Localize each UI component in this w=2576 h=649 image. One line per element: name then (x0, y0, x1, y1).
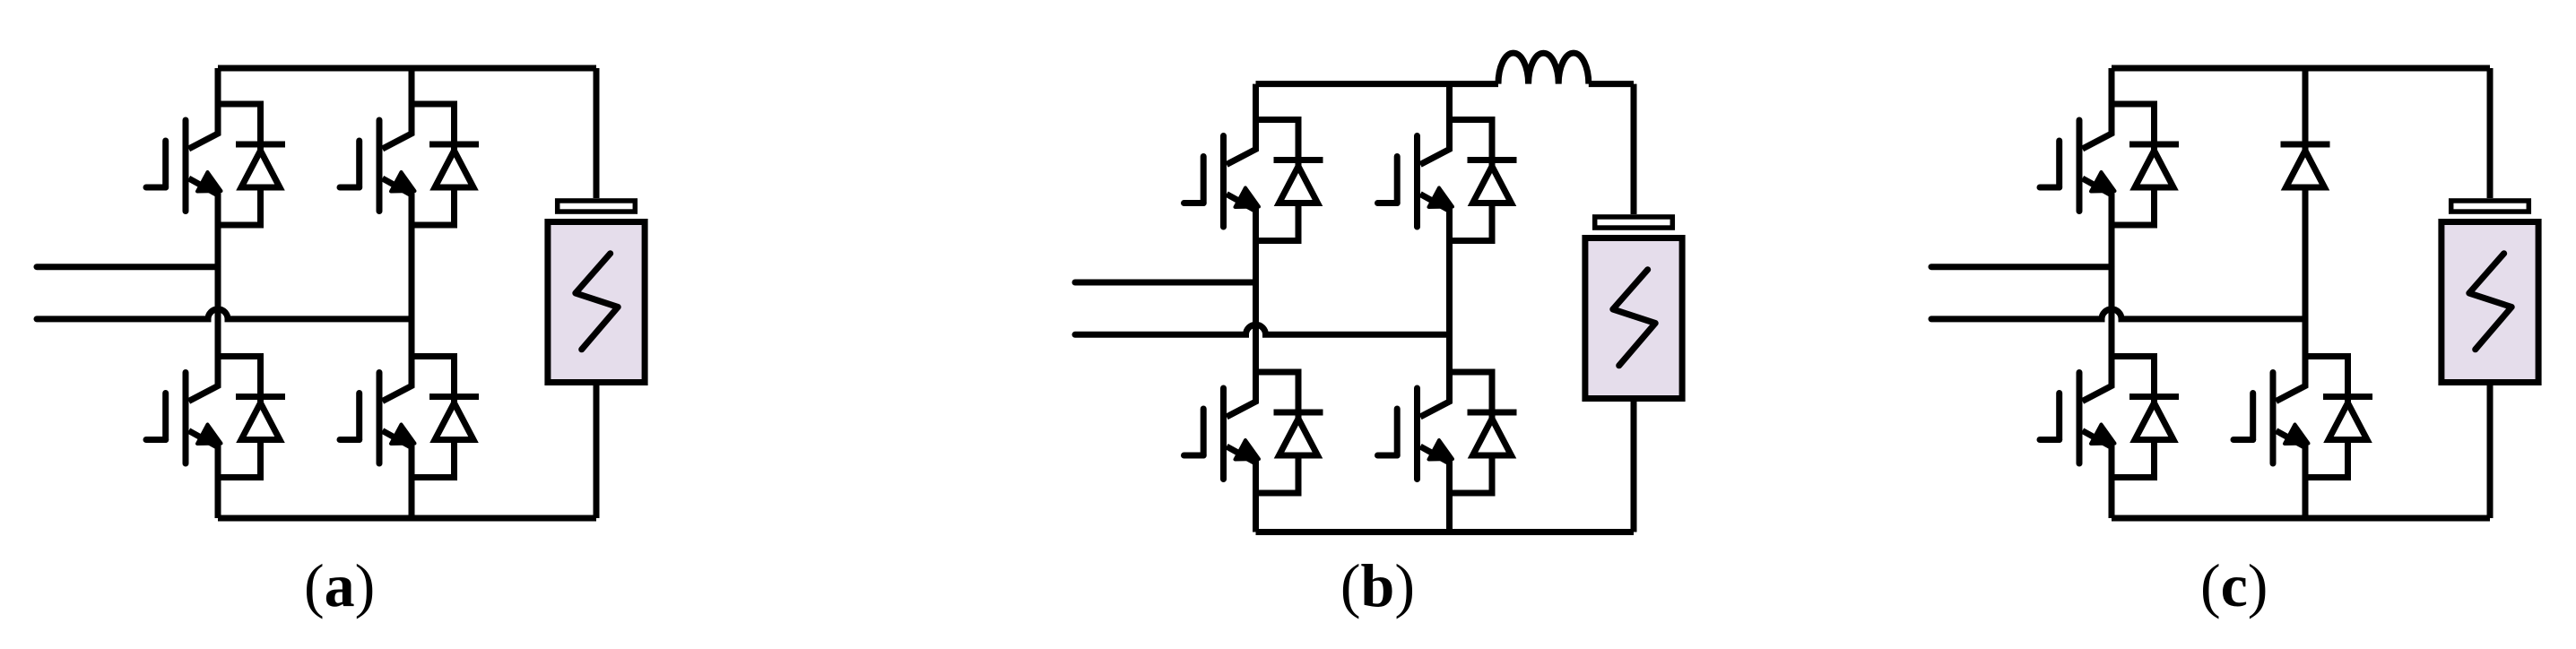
transistor S4: IGBT with diode, bottom-right (a) (340, 356, 479, 479)
wire: battery positive lead (c) (2487, 68, 2494, 198)
wire: left leg middle segment (c) (2109, 225, 2115, 357)
wire: right leg upper segment (b) (1446, 84, 1453, 120)
wire: top DC rail (a) (218, 65, 596, 72)
wire: right leg lower segment (b) (1446, 493, 1453, 532)
wire: left leg middle segment (b) (1253, 241, 1259, 373)
wire: battery positive lead (b) (1631, 84, 1637, 214)
diode D2: bare diode, top-right leg (c) (2281, 144, 2330, 187)
wire: AC input line 2 with crossover hop (a) (37, 309, 412, 319)
wire: bottom DC rail (a) (218, 515, 596, 522)
wire: right leg middle segment (b) (1446, 241, 1453, 373)
wire: right leg lower segment (a) (409, 478, 415, 519)
wire: left leg upper segment (a) (215, 68, 221, 104)
transistor S1: IGBT with diode, top-left (a) (146, 103, 285, 226)
wire: top DC rail right part (b) (1589, 81, 1634, 87)
wire: bottom DC rail (c) (2112, 515, 2490, 522)
transistor S3: IGBT with diode, bottom-left (b) (1184, 371, 1323, 494)
wire: right leg middle segment (a) (409, 225, 415, 357)
wire: left leg upper segment (b) (1253, 84, 1259, 120)
battery (a) (548, 201, 645, 383)
transistor S1: IGBT with diode, top-left (b) (1184, 119, 1323, 242)
inductor L (b) (1498, 53, 1589, 84)
wire: battery positive lead (a) (594, 68, 600, 198)
wire: battery negative lead (c) (2487, 385, 2494, 518)
svg-text:(b): (b) (1340, 551, 1415, 619)
transistor S4: IGBT with diode, bottom-right (b) (1378, 371, 1517, 494)
svg-text:(c): (c) (2200, 551, 2268, 619)
wire: right leg upper segment (a) (409, 68, 415, 104)
wire: right leg upper segment through diode (c) (2303, 68, 2309, 357)
battery (c) (2442, 201, 2538, 383)
wire: battery negative lead (a) (594, 385, 600, 518)
wire: AC input line 2 with crossover hop (b) (1075, 324, 1450, 334)
wire: AC input line 1 (b) (1075, 280, 1256, 286)
wire: left leg upper segment (c) (2109, 68, 2115, 104)
battery (b) (1585, 217, 1682, 399)
svg-text:(a): (a) (304, 551, 375, 619)
transistor S3: IGBT with diode, bottom-left (c) (2040, 356, 2179, 479)
wire: left leg lower segment (c) (2109, 478, 2115, 519)
wire: AC input line 2 with crossover hop (c) (1931, 309, 2305, 319)
transistor S1: IGBT with diode, top-left (c) (2040, 103, 2179, 226)
wire: top DC rail left part (b) (1256, 81, 1499, 87)
wire: bottom DC rail (b) (1256, 529, 1635, 535)
transistor S2: IGBT with diode, top-right (b) (1378, 119, 1517, 242)
transistor S4: IGBT with diode, bottom-right (c) (2233, 356, 2372, 479)
transistor S2: IGBT with diode, top-right (a) (340, 103, 479, 226)
wire: AC input line 1 (c) (1931, 264, 2112, 270)
wire: left leg middle segment (a) (215, 225, 221, 357)
wire: AC input line 1 (a) (37, 264, 218, 270)
wire: left leg lower segment (a) (215, 478, 221, 519)
transistor S3: IGBT with diode, bottom-left (a) (146, 356, 285, 479)
wire: top DC rail (c) (2112, 65, 2490, 72)
wire: left leg lower segment (b) (1253, 493, 1259, 532)
wire: battery negative lead (b) (1631, 402, 1637, 532)
wire: right leg lower segment (c) (2303, 478, 2309, 519)
